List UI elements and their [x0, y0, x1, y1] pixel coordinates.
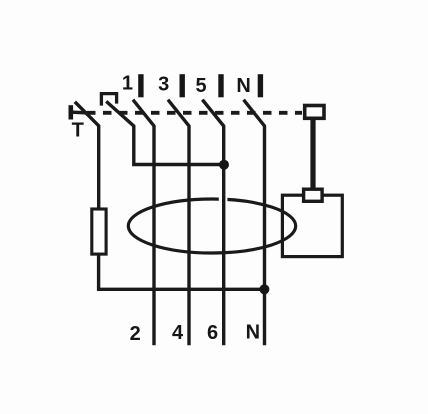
svg-text:2: 2	[130, 323, 141, 345]
svg-text:1: 1	[122, 73, 133, 95]
svg-text:3: 3	[158, 73, 169, 95]
svg-text:5: 5	[195, 75, 206, 97]
svg-text:4: 4	[172, 322, 184, 344]
svg-text:T: T	[72, 120, 84, 142]
svg-text:6: 6	[207, 322, 218, 344]
svg-text:N: N	[246, 322, 260, 344]
svg-text:N: N	[236, 75, 250, 97]
